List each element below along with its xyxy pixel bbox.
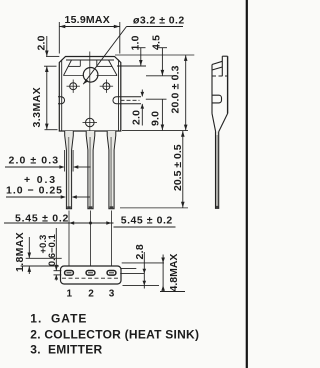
right border <box>246 0 248 368</box>
dimension 20.5±0.5 line <box>182 131 184 208</box>
svg-text:20.5 ± 0.5: 20.5 ± 0.5 <box>172 144 184 191</box>
svg-text:ø3.2 ± 0.2: ø3.2 ± 0.2 <box>133 15 185 27</box>
left side dent pill <box>58 97 65 104</box>
svg-text:1.0: 1.0 <box>130 35 142 50</box>
small hole left <box>70 83 77 90</box>
svg-text:2.8: 2.8 <box>134 244 146 260</box>
svg-text:1.0 − 0.25: 1.0 − 0.25 <box>6 185 63 197</box>
svg-text:2.0 ± 0.3: 2.0 ± 0.3 <box>9 155 60 167</box>
lead section pill 2 <box>86 271 95 276</box>
lead 1 front <box>65 131 74 209</box>
front view inner border left <box>61 60 63 131</box>
front view inner border right <box>118 60 120 131</box>
top edge extension right <box>115 54 194 56</box>
front view inner slant right <box>109 60 118 76</box>
svg-text:4.5: 4.5 <box>151 35 163 50</box>
package vertical centerline <box>89 52 91 131</box>
dimension 2.0±0.3 arrows <box>5 150 91 172</box>
leader line for hole diameter <box>127 26 184 28</box>
dimension 2.0 tab <box>142 90 166 126</box>
svg-text:0.6−0.1: 0.6−0.1 <box>47 234 58 267</box>
front view inner slant left <box>64 60 72 76</box>
lead section pill 3 <box>107 271 116 276</box>
lead 2 front <box>86 131 95 209</box>
dimension 1.0 right <box>117 48 146 66</box>
dimension 9.0 line <box>161 99 163 130</box>
svg-text:2. COLLECTOR (HEAT SINK): 2. COLLECTOR (HEAT SINK) <box>30 327 199 341</box>
svg-text:2.0: 2.0 <box>131 110 143 125</box>
bottom hole <box>86 118 95 127</box>
svg-text:20.0 ± 0.3: 20.0 ± 0.3 <box>170 65 182 113</box>
front view inner top line <box>66 59 114 61</box>
dimension 20.0±0.3 line <box>185 55 187 130</box>
svg-text:9.0: 9.0 <box>150 111 162 126</box>
dimension 2.0 top left <box>44 36 59 66</box>
lead section pill 1 <box>65 271 74 276</box>
dimension 15.9MAX line <box>59 22 120 54</box>
svg-text:4.8MAX: 4.8MAX <box>168 254 180 292</box>
dimension 4.5 right <box>146 48 177 76</box>
dimension 0.6 +0.3/-0.1 <box>54 270 62 272</box>
svg-text:3. EMITTER: 3. EMITTER <box>30 342 102 356</box>
mounting hole <box>83 68 98 83</box>
svg-text:1: 1 <box>67 289 73 300</box>
side view <box>212 56 228 208</box>
lead center extension lines <box>68 211 70 266</box>
dimension 3.3MAX line <box>46 66 48 129</box>
dimension 1.0 +0.3/-0.25 arrows <box>6 196 90 198</box>
lead tip extension line <box>120 207 188 209</box>
svg-text:3: 3 <box>109 289 115 300</box>
svg-text:3.3MAX: 3.3MAX <box>31 87 43 128</box>
svg-text:1. GATE: 1. GATE <box>30 312 87 326</box>
right side tab pill <box>113 97 117 104</box>
dimension 5.45±0.2 line <box>4 222 114 224</box>
mounting hole horizontal centerline <box>64 75 84 77</box>
dimension 4.8MAX <box>160 255 185 292</box>
hole slot shelf right <box>96 60 98 66</box>
svg-text:2.0: 2.0 <box>36 35 48 50</box>
dimension 1.8MAX <box>21 237 62 274</box>
small hole right <box>103 83 110 90</box>
svg-text:5.45 ± 0.2: 5.45 ± 0.2 <box>121 215 173 227</box>
svg-text:2: 2 <box>88 289 94 300</box>
svg-text:5.45 ± 0.2: 5.45 ± 0.2 <box>15 212 69 224</box>
svg-text:1.8MAX: 1.8MAX <box>14 232 26 272</box>
svg-text:15.9MAX: 15.9MAX <box>65 14 111 26</box>
front view body outline <box>59 57 121 132</box>
bottom view outline <box>61 266 122 284</box>
bottom view dashed line <box>62 277 119 279</box>
lead 3 front <box>107 131 116 209</box>
hole slot shelf left <box>79 60 81 66</box>
dimension 2.8 structure <box>120 252 164 289</box>
